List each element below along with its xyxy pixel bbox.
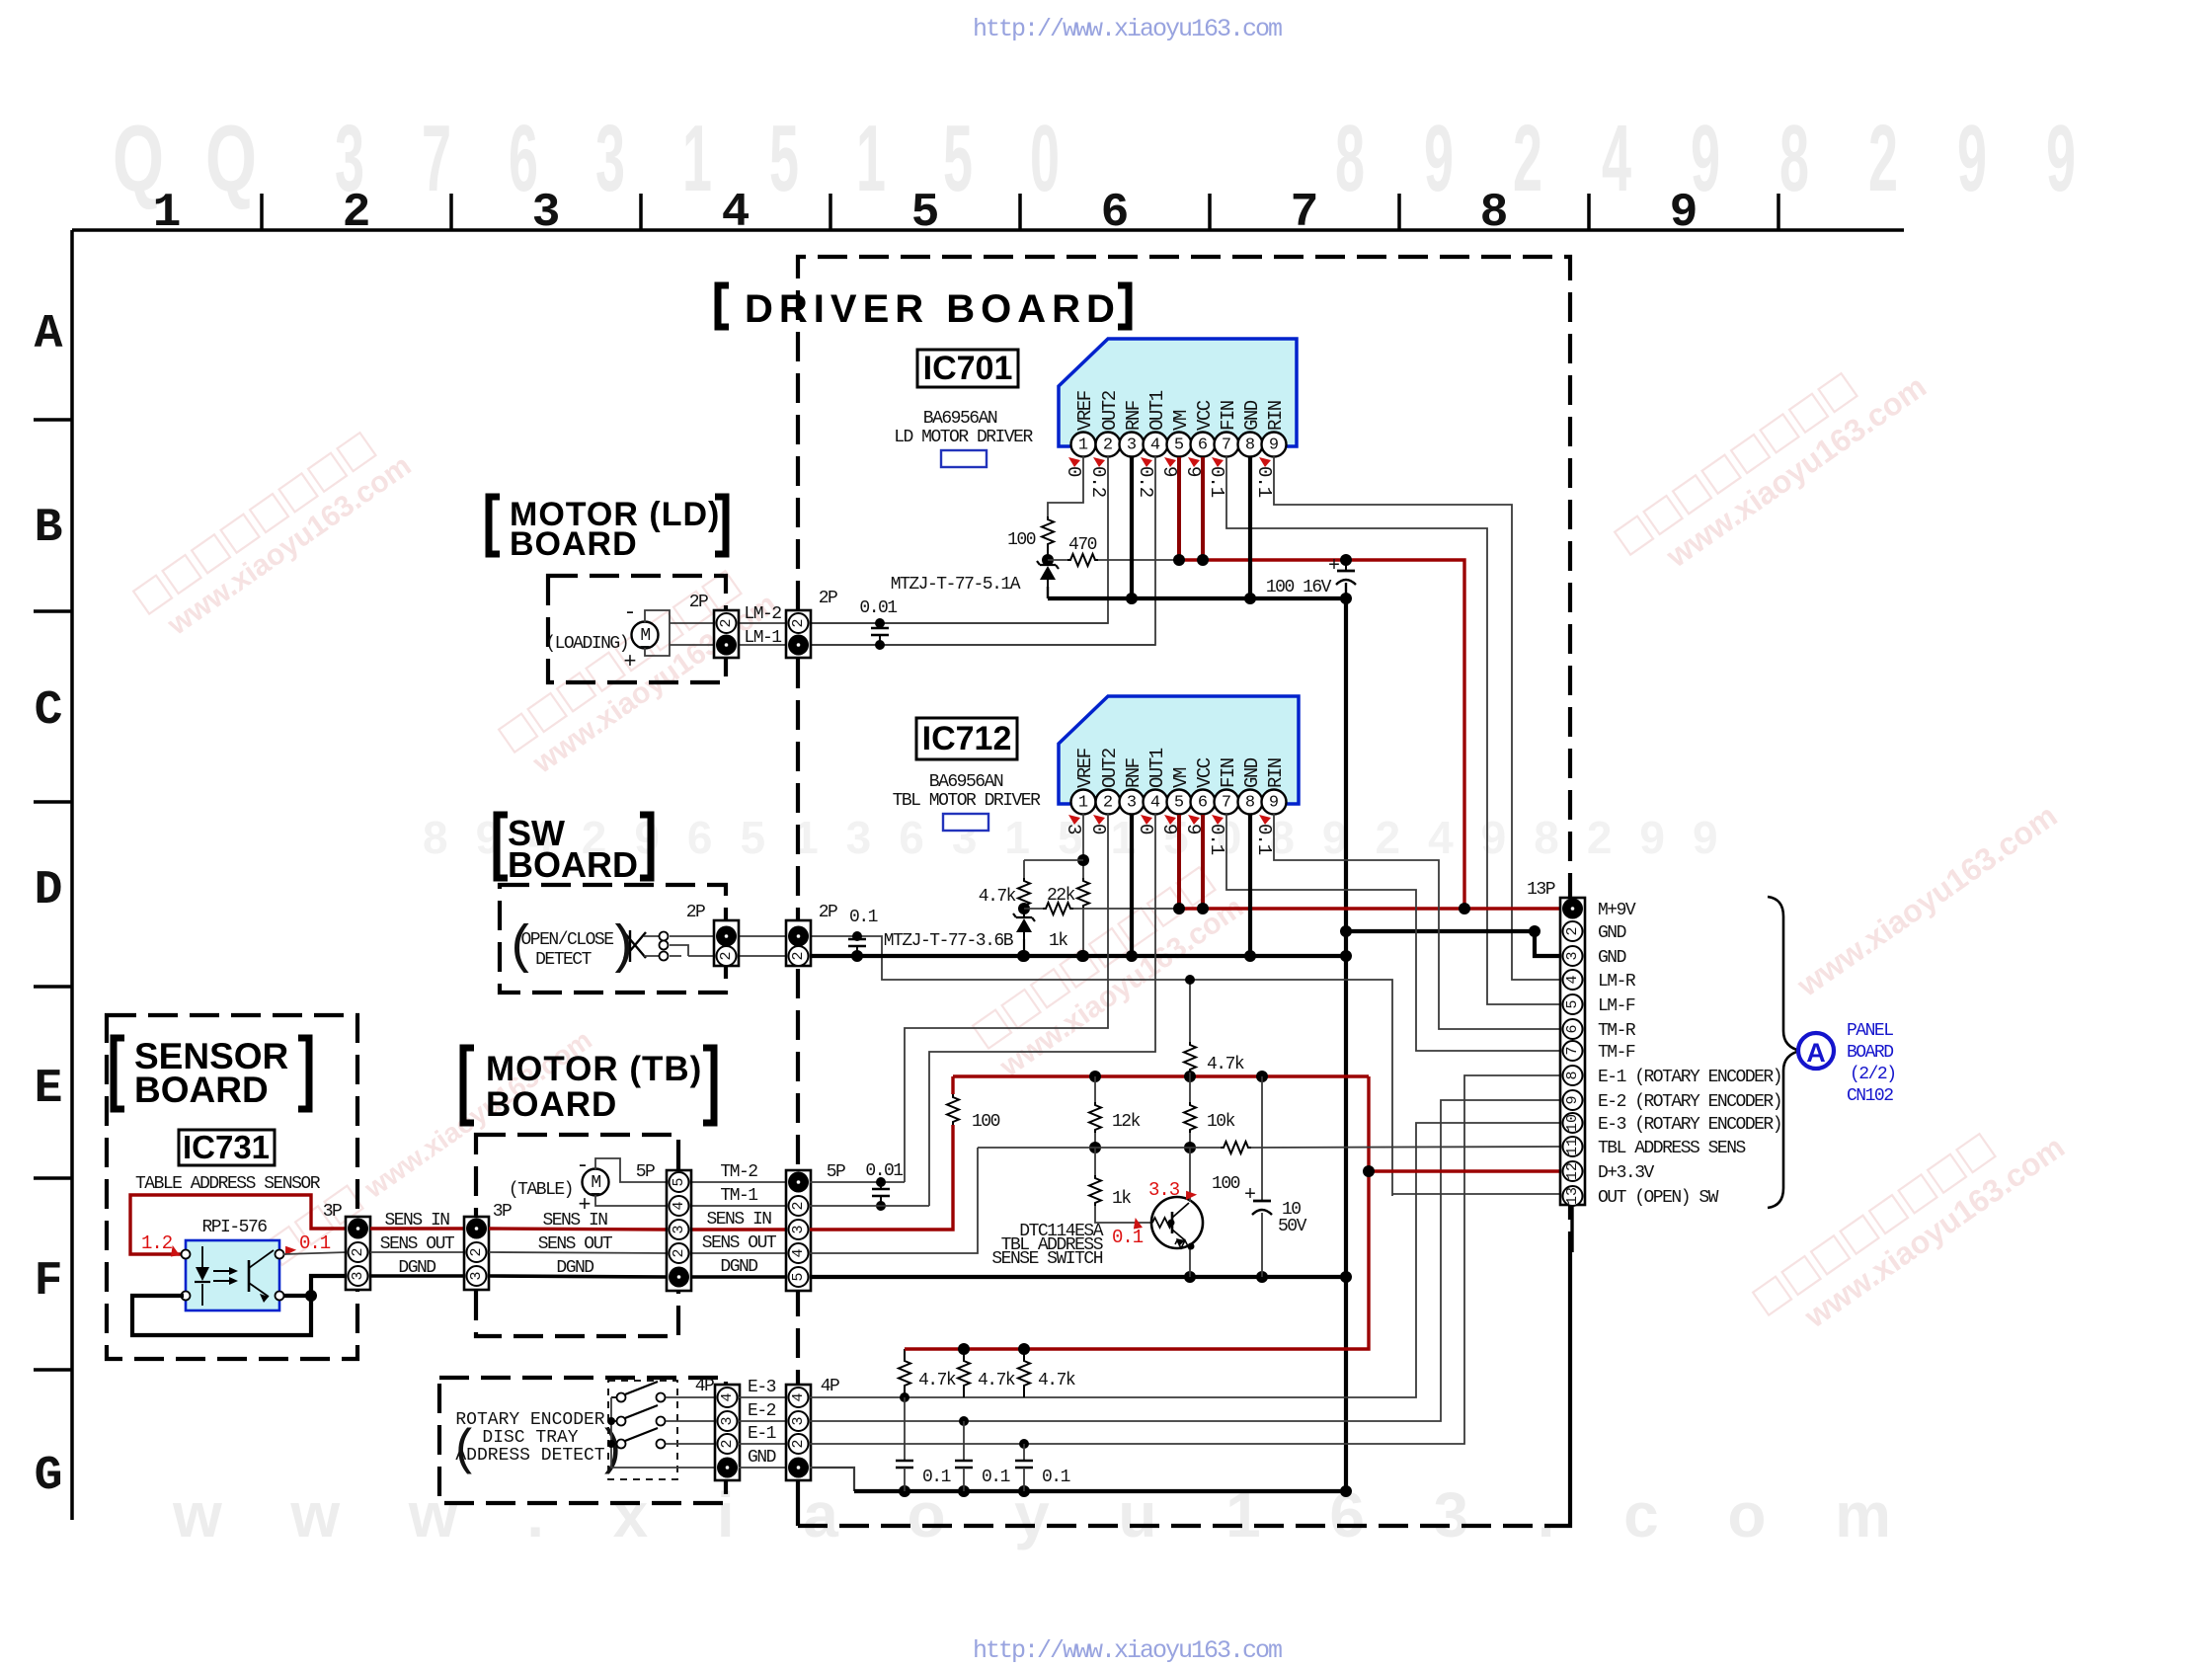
svg-text:DGND: DGND — [556, 1258, 593, 1278]
capacitors 0.1 x3 — [904, 1397, 906, 1461]
svg-text:11: 11 — [1564, 1138, 1581, 1155]
wire IC712 RIN to TM-R — [1274, 814, 1562, 1029]
wire IC712 RNF pin3 — [1130, 814, 1134, 956]
opto pins — [182, 1250, 191, 1259]
resistor 1k (base) — [1094, 1148, 1096, 1175]
opto LED — [201, 1246, 203, 1306]
svg-text:0: 0 — [1087, 824, 1109, 834]
svg-text:9: 9 — [1158, 466, 1180, 477]
svg-text:IC712: IC712 — [922, 720, 1012, 757]
svg-text:3: 3 — [790, 1225, 807, 1233]
svg-text:GND: GND — [1241, 400, 1263, 431]
svg-text:6: 6 — [1101, 187, 1130, 240]
watermark pink diagonal 1 — [133, 420, 417, 647]
wire TBL ADDRESS SENS line to 13P pin11 — [978, 1147, 1221, 1149]
op-amp/driver IC712 BA6956AN block — [1059, 696, 1299, 804]
opto light arrows — [213, 1271, 229, 1281]
svg-text:SENS IN: SENS IN — [542, 1211, 607, 1231]
sw board outline — [500, 885, 726, 993]
wire red D+3.3V bottom bus — [905, 1076, 1369, 1349]
wire red 3.3V top rail — [953, 1074, 1369, 1077]
svg-text:DGND: DGND — [720, 1257, 757, 1277]
svg-text:0.2: 0.2 — [1087, 466, 1109, 498]
svg-text:8: 8 — [1245, 794, 1255, 813]
svg-text:4.7k: 4.7k — [978, 1371, 1015, 1390]
zener diode MTZJ-T-77-5.1A — [1037, 561, 1059, 569]
svg-text:7: 7 — [1222, 437, 1231, 455]
svg-text:RPI-576: RPI-576 — [201, 1218, 267, 1237]
sensor board outline — [107, 1015, 357, 1359]
svg-text:M+9V: M+9V — [1598, 901, 1636, 920]
wire red sensor supply 1.2V — [130, 1195, 348, 1254]
svg-text:2: 2 — [718, 951, 735, 960]
wire VREF branch to 4.7k — [1024, 859, 1083, 861]
wire IC712 VCC pin6 red — [1201, 815, 1205, 909]
svg-text:0.1: 0.1 — [1253, 824, 1275, 855]
svg-text:E-2: E-2 — [748, 1401, 776, 1421]
svg-text:TM-F: TM-F — [1598, 1043, 1635, 1063]
svg-text:GND: GND — [1598, 948, 1626, 968]
svg-text:9: 9 — [1564, 1095, 1581, 1104]
svg-text:LD MOTOR DRIVER: LD MOTOR DRIVER — [894, 428, 1033, 447]
svg-text:4: 4 — [1150, 794, 1160, 813]
watermark pink diagonal 5 — [1615, 339, 1933, 592]
resistor 470 — [1048, 559, 1067, 561]
svg-text:2P: 2P — [819, 589, 837, 608]
svg-text:4: 4 — [1150, 437, 1160, 455]
IC701 blue rect — [941, 450, 987, 467]
connector 2P driver side (LD) — [786, 610, 811, 658]
connector 4P driver side — [786, 1385, 811, 1480]
svg-text:2: 2 — [1103, 794, 1113, 813]
svg-text:M: M — [640, 626, 650, 646]
svg-text:TM-1: TM-1 — [720, 1186, 757, 1206]
svg-text:22k: 22k — [1047, 886, 1075, 906]
wire IC712 OUT1 to TM-1 — [929, 814, 1155, 1206]
wire SENS IN red riser — [810, 1125, 953, 1230]
svg-text:OUT2: OUT2 — [1099, 748, 1121, 788]
svg-text:2: 2 — [468, 1247, 485, 1256]
wire TM-2 from 5P to IC712 — [810, 1181, 905, 1183]
wire GND bus sw row — [739, 955, 812, 957]
wire IC701 OUT2 to LM-2 — [812, 456, 1108, 623]
svg-text:2: 2 — [343, 187, 371, 240]
svg-text:A: A — [1806, 1038, 1826, 1068]
svg-text:TM-R: TM-R — [1598, 1021, 1636, 1041]
row ticks — [34, 420, 72, 1370]
connector 3P driver-side — [464, 1217, 489, 1290]
svg-text:4: 4 — [722, 187, 750, 240]
svg-text:http://www.xiaoyu163.com: http://www.xiaoyu163.com — [973, 15, 1282, 43]
svg-text:BOARD: BOARD — [486, 1085, 617, 1124]
column ticks — [262, 194, 1778, 230]
node A circle (panel board ref) — [1798, 1033, 1834, 1069]
svg-text:7: 7 — [422, 106, 451, 211]
svg-text:0.1: 0.1 — [922, 1468, 951, 1487]
transistor Q DTC114ESA — [1151, 1197, 1203, 1248]
wire IC701 GND bus — [1048, 596, 1346, 600]
svg-text:8: 8 — [1245, 437, 1255, 455]
wire LM-1 net — [739, 644, 1155, 646]
capacitor 10uF 50V — [1261, 1076, 1263, 1201]
resistor 100 (collector line) — [1221, 1142, 1251, 1153]
svg-text:2: 2 — [790, 618, 807, 627]
svg-text:0.1: 0.1 — [299, 1232, 331, 1254]
svg-text:D: D — [35, 864, 63, 917]
svg-text:BOARD: BOARD — [510, 525, 638, 563]
svg-text:-: - — [576, 1153, 589, 1178]
svg-text:13P: 13P — [1527, 880, 1555, 900]
wire opto collector to SENS OUT — [283, 1252, 348, 1254]
svg-text:BOARD: BOARD — [1847, 1043, 1893, 1063]
svg-text:3: 3 — [1127, 794, 1137, 813]
svg-text:TBL ADDRESS SENS: TBL ADDRESS SENS — [1598, 1139, 1746, 1158]
opto phototransistor — [248, 1260, 251, 1292]
svg-text:BOARD: BOARD — [134, 1070, 269, 1110]
wire red D+3.3V to 13P pin12 — [1369, 1169, 1562, 1172]
svg-text:0.1: 0.1 — [1042, 1468, 1070, 1487]
svg-text:100: 100 — [1212, 1174, 1240, 1194]
IC712 red pin voltage values — [1063, 824, 1275, 855]
svg-text:VREF: VREF — [1074, 748, 1096, 788]
label DRIVER BOARD — [718, 285, 729, 327]
svg-text:4: 4 — [719, 1392, 736, 1401]
driver board outline — [798, 257, 1570, 1526]
svg-text:100: 100 — [972, 1112, 1000, 1132]
op-amp/driver IC701 BA6956AN block — [1059, 339, 1297, 446]
svg-text:DRIVER BOARD: DRIVER BOARD — [745, 287, 1121, 331]
watermark pink diagonal 7 — [1753, 1099, 2071, 1352]
svg-text:BOARD: BOARD — [508, 844, 638, 885]
svg-text:5: 5 — [1174, 437, 1184, 455]
svg-text:4.7k: 4.7k — [1038, 1371, 1075, 1390]
svg-text:1k: 1k — [1112, 1189, 1131, 1209]
svg-text:FIN: FIN — [1218, 758, 1239, 788]
svg-text:470: 470 — [1068, 535, 1097, 555]
svg-text:TABLE ADDRESS SENSOR: TABLE ADDRESS SENSOR — [135, 1174, 321, 1194]
wire IC701 FIN to LM-F — [1226, 456, 1562, 1004]
IC712 pins 1-9 — [1071, 790, 1096, 815]
svg-text:+: + — [578, 1193, 591, 1218]
capacitor 0.01 (TM) — [880, 1182, 882, 1189]
IC712 designator box — [916, 718, 1017, 759]
wire E-3 net to 13P pin10 — [810, 1123, 1562, 1397]
svg-text:1: 1 — [153, 187, 182, 240]
motor LD board outline — [548, 576, 726, 682]
connector 5P TB board — [667, 1170, 691, 1291]
svg-text:2P: 2P — [819, 903, 837, 922]
wire IC712 OUT2 to TM-2 — [905, 814, 1108, 1182]
svg-text:E-2 (ROTARY ENCODER): E-2 (ROTARY ENCODER) — [1598, 1092, 1781, 1112]
svg-text:0.01: 0.01 — [865, 1161, 903, 1181]
resistor 100 (sens riser) — [947, 1094, 959, 1125]
node VREF/zener junction — [1042, 554, 1054, 566]
svg-text:3: 3 — [1063, 824, 1084, 834]
wire collector — [1189, 1148, 1191, 1202]
wire emitter to GND — [1189, 1245, 1191, 1277]
svg-text:5: 5 — [1174, 794, 1184, 813]
svg-text:5: 5 — [671, 1177, 687, 1186]
label MOTOR (LD) BOARD — [489, 497, 500, 554]
svg-text:0: 0 — [1063, 466, 1084, 477]
wire rotary GND to bottom bus — [810, 1468, 854, 1491]
svg-text:G: G — [35, 1450, 63, 1503]
svg-text:GND: GND — [1598, 923, 1626, 943]
svg-text:OUT2: OUT2 — [1099, 390, 1121, 431]
wire DGND bus — [810, 1275, 1346, 1279]
wire LM-2 net — [739, 622, 1108, 624]
watermark pink diagonal 2 — [499, 558, 782, 785]
wire IC701 GND pin8 — [1248, 456, 1252, 598]
svg-text:D+3.3V: D+3.3V — [1598, 1163, 1655, 1183]
svg-text:3: 3 — [671, 1225, 687, 1233]
label MOTOR (TB) BOARD — [463, 1048, 474, 1123]
svg-text:OUT1: OUT1 — [1146, 390, 1168, 431]
wire IC712 VREF pin1 + 22k column — [1082, 814, 1084, 878]
svg-text:E: E — [35, 1063, 63, 1116]
svg-text:2: 2 — [1564, 926, 1581, 935]
wire sens lines 3P to 3P — [370, 1227, 464, 1230]
svg-text:A: A — [35, 308, 63, 361]
svg-text:5: 5 — [911, 187, 940, 240]
svg-text:BA6956AN: BA6956AN — [929, 772, 1003, 792]
svg-text:DISC TRAY: DISC TRAY — [482, 1428, 578, 1448]
svg-text:9: 9 — [1424, 106, 1454, 211]
wire LD motor bracket — [645, 610, 714, 656]
svg-text:C: C — [35, 684, 63, 738]
svg-text:2: 2 — [790, 951, 807, 960]
13P bottom stub — [1570, 1205, 1573, 1252]
wire TM/SENS lines between 5P connectors — [691, 1181, 786, 1183]
svg-text:9: 9 — [1269, 437, 1279, 455]
svg-text:100 16V: 100 16V — [1266, 578, 1332, 597]
svg-text:3: 3 — [719, 1416, 736, 1425]
svg-text:IC701: IC701 — [923, 350, 1013, 387]
wire E lines between 4P connectors — [739, 1396, 786, 1398]
watermark faint QQ digits row — [113, 106, 2076, 211]
svg-text:10: 10 — [1564, 1114, 1581, 1132]
svg-text:VREF: VREF — [1074, 390, 1096, 431]
wire IC701 RIN to LM-R — [1274, 456, 1562, 980]
svg-text:0.1: 0.1 — [1206, 466, 1227, 498]
svg-text:2: 2 — [1513, 106, 1542, 211]
IC712 pin names — [1074, 748, 1287, 788]
svg-text:2: 2 — [1103, 437, 1113, 455]
svg-text:6: 6 — [1564, 1024, 1581, 1033]
svg-text:0.1: 0.1 — [849, 908, 878, 927]
svg-text:3: 3 — [1564, 951, 1581, 960]
rotary encoder board outline — [439, 1378, 726, 1503]
svg-text:SENS OUT: SENS OUT — [380, 1234, 455, 1254]
connector 5P driver side — [786, 1170, 811, 1291]
wire bottom GND bus — [854, 1489, 1346, 1493]
wire sens lines 3P to 5P — [489, 1229, 667, 1230]
motor M (LOADING) — [632, 622, 659, 649]
svg-text:CN102: CN102 — [1847, 1086, 1893, 1106]
svg-text:TM-2: TM-2 — [720, 1162, 757, 1182]
svg-text:2: 2 — [790, 1439, 807, 1448]
svg-text:9: 9 — [2046, 106, 2076, 211]
border ruler top line — [72, 228, 1904, 232]
svg-text:5: 5 — [1564, 999, 1581, 1008]
svg-text:13: 13 — [1564, 1187, 1581, 1205]
wire IC701 VCC pin6 red — [1201, 457, 1205, 560]
wire opto ground loop DGND — [132, 1276, 348, 1335]
svg-text:1: 1 — [1078, 437, 1088, 455]
svg-text:3: 3 — [1127, 437, 1137, 455]
svg-text:Q: Q — [205, 106, 257, 211]
svg-text:4: 4 — [671, 1201, 687, 1210]
capacitor 100uF 16V — [1345, 560, 1347, 571]
svg-text:10k: 10k — [1207, 1112, 1235, 1132]
svg-text:BA6956AN: BA6956AN — [923, 409, 997, 429]
svg-text:E-1: E-1 — [748, 1424, 776, 1444]
svg-text:DGND: DGND — [398, 1258, 435, 1278]
wire TB motor leads — [595, 1158, 667, 1206]
switch OPEN/CLOSE DETECT symbol — [624, 930, 646, 962]
svg-text:8: 8 — [1779, 106, 1809, 211]
svg-text:LM-1: LM-1 — [744, 628, 781, 648]
svg-text:FIN: FIN — [1218, 401, 1239, 431]
IC701 pins 1-9 — [1071, 433, 1096, 457]
wire IC701 OUT1 to LM-1 — [812, 456, 1155, 645]
svg-text:1: 1 — [682, 106, 712, 211]
svg-text:4: 4 — [1602, 106, 1631, 211]
resistor 100 (IC701 VREF) — [1042, 516, 1054, 547]
svg-text:RIN: RIN — [1265, 401, 1287, 431]
watermark pink diagonal 3 — [237, 1023, 597, 1289]
svg-text:LM-F: LM-F — [1598, 996, 1635, 1016]
svg-text:RNF: RNF — [1123, 400, 1145, 431]
motor TB board outline — [476, 1135, 678, 1336]
svg-text:4: 4 — [1564, 975, 1581, 984]
svg-text:2: 2 — [350, 1247, 366, 1256]
svg-text:0.1: 0.1 — [982, 1468, 1010, 1487]
svg-text:8: 8 — [1335, 106, 1365, 211]
svg-text:4.7k: 4.7k — [979, 887, 1016, 907]
svg-text:0.1: 0.1 — [1253, 466, 1275, 498]
wire IC701 VM pin5 red — [1177, 457, 1181, 560]
svg-text:6: 6 — [1198, 794, 1208, 813]
wire red +9V bus to 13P pin1 — [1179, 907, 1562, 910]
svg-text:0.2: 0.2 — [1135, 466, 1156, 498]
svg-text:VM: VM — [1170, 410, 1192, 431]
svg-text:2: 2 — [1868, 106, 1898, 211]
svg-text:9: 9 — [1957, 106, 1987, 211]
capacitor 0.01 (LM) — [879, 623, 881, 628]
svg-text:RNF: RNF — [1123, 757, 1145, 788]
svg-text:3P: 3P — [323, 1202, 342, 1222]
svg-text:0.1: 0.1 — [1112, 1227, 1144, 1248]
svg-text:7: 7 — [1291, 187, 1319, 240]
svg-text:DETECT: DETECT — [535, 950, 592, 970]
svg-text:http://www.xiaoyu163.com: http://www.xiaoyu163.com — [973, 1636, 1282, 1663]
wire IC701 VREF pin1 — [1048, 456, 1083, 516]
svg-text:VCC: VCC — [1194, 757, 1216, 788]
svg-text:IC731: IC731 — [183, 1129, 270, 1165]
svg-text:1: 1 — [1078, 794, 1088, 813]
label PANEL BOARD (2/2) CN102 — [1847, 1021, 1896, 1106]
resistor 12k — [1094, 1076, 1096, 1102]
pull-up resistors 4.7k x3 — [904, 1349, 906, 1358]
svg-text:3: 3 — [790, 1416, 807, 1425]
wire IC712 VM pin5 red — [1177, 815, 1181, 909]
row letters A-G — [35, 308, 63, 1503]
svg-text:9: 9 — [1158, 824, 1180, 834]
svg-text:(2/2): (2/2) — [1850, 1065, 1896, 1084]
svg-text:12: 12 — [1564, 1162, 1581, 1180]
svg-text:SENS OUT: SENS OUT — [702, 1233, 777, 1253]
svg-text:9: 9 — [1670, 187, 1698, 240]
svg-text:MTZJ-T-77-3.6B: MTZJ-T-77-3.6B — [884, 931, 1014, 951]
svg-text:VM: VM — [1170, 767, 1192, 788]
svg-text:4: 4 — [790, 1392, 807, 1401]
svg-text:OUT1: OUT1 — [1146, 748, 1168, 788]
svg-text:B: B — [35, 502, 63, 555]
svg-text:GND: GND — [748, 1448, 776, 1468]
wire GND to 13P pin2/pin3 — [1346, 931, 1562, 956]
wire rotary common to GND — [611, 1397, 715, 1468]
connector 2P LD board side — [714, 610, 739, 658]
column numbers 1-9 — [153, 187, 1698, 240]
connector 13P CN102 — [1560, 898, 1585, 1205]
svg-text:0.01: 0.01 — [859, 598, 897, 618]
IC701 red arrows — [1068, 457, 1080, 467]
svg-text:GND: GND — [1241, 757, 1263, 788]
svg-text:4: 4 — [790, 1248, 807, 1257]
driver board edge solid segment below 4P — [796, 1481, 800, 1526]
wire GND trunk vertical — [1344, 598, 1348, 1491]
svg-text:9: 9 — [1182, 824, 1204, 834]
motor M (TABLE) — [583, 1169, 609, 1196]
wire E-1 net to 13P pin8 — [810, 1075, 1562, 1444]
svg-text:2: 2 — [671, 1248, 687, 1257]
svg-text:8: 8 — [1564, 1071, 1581, 1079]
svg-text:3: 3 — [595, 106, 625, 211]
capacitor 0.1 (SW) — [856, 936, 858, 939]
svg-text:TBL MOTOR DRIVER: TBL MOTOR DRIVER — [893, 791, 1042, 811]
brace panel board — [1768, 897, 1800, 1208]
svg-text:SENS IN: SENS IN — [706, 1210, 771, 1230]
svg-text:VCC: VCC — [1194, 400, 1216, 431]
wire sw contacts — [644, 936, 714, 956]
svg-text:SENS OUT: SENS OUT — [538, 1234, 613, 1254]
IC731 designator box — [179, 1130, 275, 1165]
svg-text:2: 2 — [719, 1439, 736, 1448]
svg-text:12k: 12k — [1112, 1112, 1141, 1132]
border left line — [70, 230, 74, 1520]
svg-text:+: + — [1328, 555, 1340, 578]
svg-text:PANEL: PANEL — [1847, 1021, 1893, 1041]
svg-text:LM-R: LM-R — [1598, 972, 1636, 992]
svg-text:5: 5 — [769, 106, 799, 211]
svg-text:2P: 2P — [689, 593, 708, 612]
svg-text:7: 7 — [1564, 1046, 1581, 1055]
svg-text:0.1: 0.1 — [1206, 824, 1227, 855]
resistor 22k — [1077, 878, 1089, 909]
wire E-2 net to 13P pin9 — [810, 1100, 1562, 1421]
svg-text:E-3: E-3 — [748, 1378, 776, 1397]
resistor 4.7k (pull-up OUT SW) — [1189, 980, 1191, 1042]
label SW BOARD — [497, 815, 508, 878]
optocoupler RPI-576 — [186, 1240, 279, 1311]
IC701 designator box — [917, 350, 1018, 387]
svg-text:MTZJ-T-77-5.1A: MTZJ-T-77-5.1A — [891, 575, 1021, 595]
svg-text:4.7k: 4.7k — [1207, 1055, 1244, 1074]
svg-text:5P: 5P — [827, 1162, 845, 1182]
rotary switch contacts — [611, 1396, 616, 1398]
wire TM-1 from 5P — [810, 1205, 929, 1207]
